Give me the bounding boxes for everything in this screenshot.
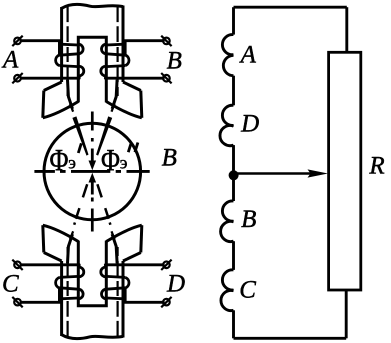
top edge [234,6,347,9]
right limb slant dash [112,104,115,112]
slant dash-dot axis lower-right (continuation of left wedge) [97,184,110,225]
svg-text:Φ: Φ [101,142,120,177]
terminal B-top [161,36,171,46]
terminal B-bottom [161,73,171,83]
vertical dash-dot axis [91,112,94,232]
junction dot [229,170,239,180]
circuit loop wires [234,7,347,338]
svg-text:C: C [239,277,256,304]
svg-text:B: B [162,145,177,172]
left wing outer edge [43,91,44,118]
svg-text:R: R [368,152,384,179]
center up arrow [89,173,97,195]
svg-text:э: э [68,153,76,173]
right edge top segment [345,7,348,52]
center down arrow [89,149,97,171]
bottom edge [234,337,347,340]
right edge bottom segment [345,290,348,338]
core outline: wavy top, outer edges, wings, pole faces, inner U cutout [43,4,142,117]
svg-text:A: A [1,46,19,73]
bottom core assembly = mirrored copy [12,225,171,338]
right narrow pole outer line [112,80,117,109]
rotor disc (circle) [44,123,141,220]
terminal A-bottom [12,73,22,83]
right wing top edge [123,82,141,91]
right wing outer edge [141,91,142,118]
limb dashed centerlines [68,7,118,112]
left limb dashed centerline [66,7,68,96]
right outer edge [122,6,125,83]
coil A (circuit) [222,35,233,76]
svg-text:A: A [239,41,257,68]
coil B (circuit) [221,201,234,242]
left outer edge [60,7,63,82]
coil C (circuit) [221,270,234,311]
left wing top edge [44,82,62,91]
wavy top edge [62,4,123,8]
resistor R [329,52,361,290]
flux wedge right (top) [96,116,112,155]
tap arrow to resistor [234,169,328,177]
label Phi-e double prime (right) [101,142,138,177]
flux wedge left (top) [72,116,88,155]
svg-text:B: B [241,206,256,233]
right limb dashed centerline [116,7,118,96]
svg-text:D: D [166,270,185,297]
coil D (circuit) [220,105,234,145]
label Phi-e prime (left) [50,142,82,177]
left narrow pole outer line [68,80,73,109]
svg-text:э: э [120,153,128,173]
right coil winding (mirror) [101,41,165,78]
horizontal dash-dot axis [34,170,149,173]
svg-text:Φ: Φ [50,142,69,177]
terminal A-top [12,36,22,46]
right pole face arc [106,102,142,118]
left coil winding [20,41,84,78]
left edge segments between coils [232,7,235,34]
svg-text:C: C [2,270,19,297]
svg-text:D: D [240,110,259,137]
slant dash-dot axis lower-left (continuation of right wedge) [74,184,87,225]
svg-text:B: B [167,47,182,74]
left limb slant dash [70,104,73,112]
inner U cutout [78,37,106,102]
left pole face arc [43,102,79,118]
